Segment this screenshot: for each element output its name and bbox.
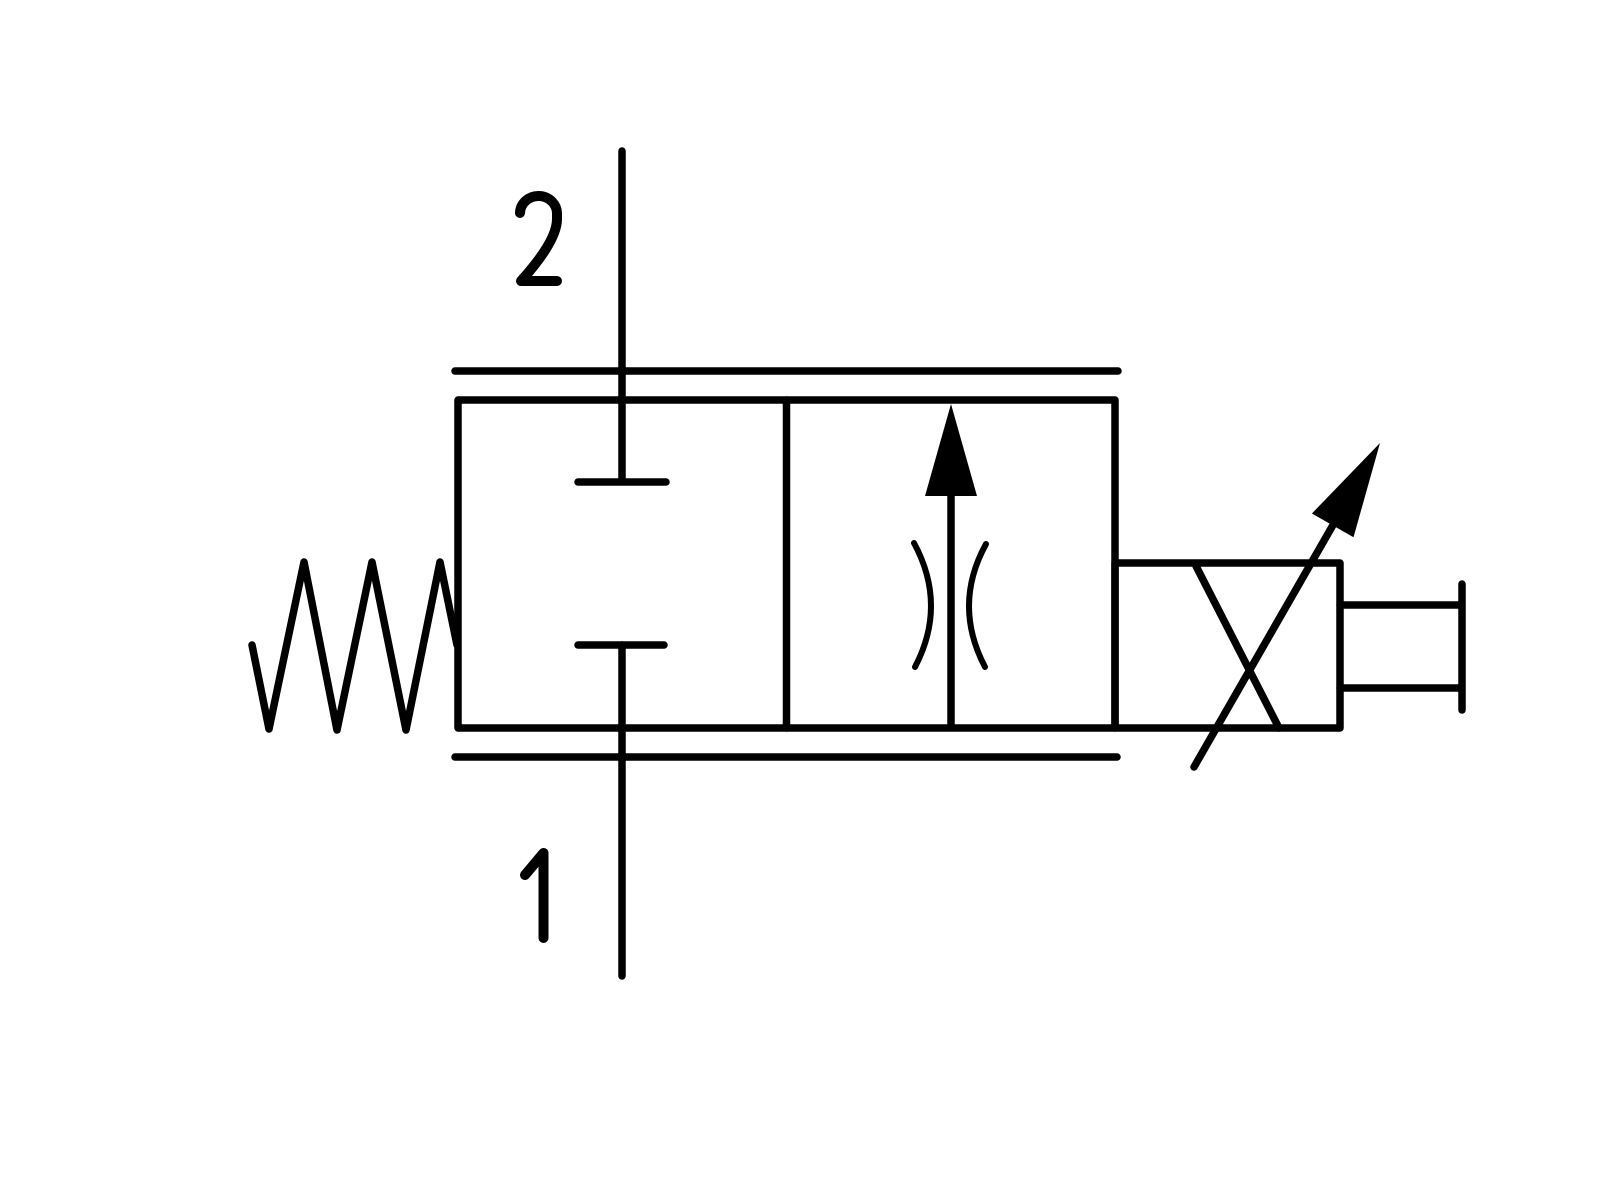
electrical connector end bar bbox=[1458, 584, 1466, 710]
electrical connector line upper bbox=[1340, 601, 1461, 609]
port label 1 bbox=[525, 853, 544, 938]
adjustment arrow line bbox=[1194, 525, 1333, 767]
port 2 line bbox=[618, 151, 626, 480]
adjustment arrowhead bbox=[1312, 443, 1380, 537]
throttle curve right bbox=[969, 544, 986, 667]
position divider bbox=[783, 400, 791, 728]
blocked port T (upper) bbox=[578, 478, 666, 486]
lower stroke-limit rail bbox=[455, 753, 1117, 761]
valve body (two-position envelope) bbox=[458, 400, 1115, 728]
return spring bbox=[252, 562, 457, 730]
blocked port T (lower) bbox=[578, 641, 664, 649]
port 1 line bbox=[618, 645, 626, 976]
flow path arrow shaft bbox=[947, 480, 955, 727]
electrical connector line lower bbox=[1340, 684, 1461, 692]
upper stroke-limit rail bbox=[455, 367, 1118, 375]
flow path arrowhead bbox=[925, 404, 977, 496]
port label 2 bbox=[520, 196, 557, 281]
solenoid box bbox=[1115, 563, 1340, 728]
throttle curve left bbox=[914, 543, 931, 667]
solenoid slash bbox=[1196, 566, 1279, 728]
